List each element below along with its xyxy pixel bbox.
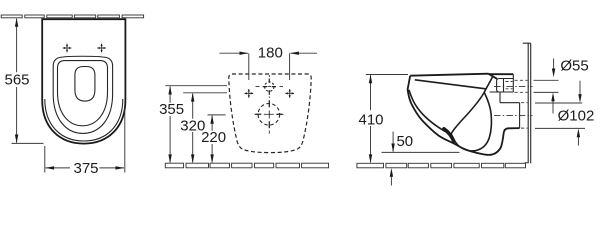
inlet horizontal centerline: [256, 86, 284, 88]
extension line front tip: [12, 142, 44, 144]
floor tile strip middle: [165, 163, 328, 168]
vertical centerline: [268, 75, 270, 134]
below-socket step: [499, 92, 501, 103]
svg-text:375: 375: [73, 160, 98, 177]
dimension 50: [382, 132, 460, 186]
trap knot thickening: [444, 129, 454, 141]
dashed pan outline (front view): [229, 74, 311, 153]
dimension 565: [4, 18, 29, 143]
fixing cross right: [97, 44, 106, 53]
back corner chamfer: [489, 74, 498, 79]
svg-text:565: 565: [4, 72, 29, 89]
fixing cross left: [63, 44, 72, 53]
pan rim top: [410, 74, 488, 76]
drain opening: [75, 67, 95, 102]
bowl back inner wall diagonal: [451, 90, 485, 134]
svg-text:220: 220: [201, 129, 226, 146]
socket bottom shelf: [490, 91, 514, 93]
svg-text:Ø102: Ø102: [558, 108, 595, 125]
water inlet circle O55 (front): [265, 82, 274, 91]
inlet socket: [497, 79, 514, 93]
seat inner diagonal: [415, 80, 486, 89]
outlet pipe top: [500, 102, 520, 104]
seat outer outline: [53, 56, 112, 133]
dimension O55: [534, 58, 589, 114]
fixing cross front-right: [285, 89, 294, 98]
inlet pipe hidden lines through wall: [515, 80, 528, 92]
svg-text:50: 50: [396, 133, 413, 150]
wall: [523, 43, 531, 163]
pan top surface to wall: [489, 73, 514, 75]
dimension 375: [45, 108, 125, 177]
fixing cross front-left: [244, 89, 253, 98]
pan back edge at wall: [512, 74, 514, 92]
outlet centerline: [494, 114, 533, 116]
floor tile strip right: [357, 163, 526, 168]
outlet horizontal centerline: [255, 113, 284, 115]
dimension 410: [358, 75, 408, 164]
dimension 355: [159, 86, 227, 164]
wall floor corner: [525, 162, 529, 164]
svg-text:180: 180: [258, 44, 283, 61]
socket flange line: [503, 79, 505, 93]
pan profile outer shell: [408, 76, 520, 155]
svg-text:355: 355: [159, 101, 184, 118]
dimension 180: [220, 44, 318, 80]
inlet centerline: [494, 85, 533, 87]
bowl inner rim: [58, 61, 108, 126]
dimension 320: [180, 93, 227, 163]
svg-text:Ø55: Ø55: [560, 58, 588, 75]
dimension O102: [535, 81, 594, 146]
trap U loop: [451, 93, 491, 151]
outlet circle O102 (front): [258, 104, 280, 126]
svg-text:410: 410: [358, 111, 383, 128]
socket hidden dashes: [506, 82, 513, 89]
bowl front inner wall: [409, 90, 450, 135]
outlet pipe hidden lines through wall: [521, 103, 528, 128]
outlet pipe right edge: [519, 103, 521, 128]
toilet body outline (top view): [42, 19, 125, 143]
bowl back inner rim edge: [485, 77, 492, 91]
dimension 220: [201, 115, 226, 163]
wall tile strip top: [1, 15, 143, 18]
body lower-shell inner edge: [45, 99, 123, 141]
